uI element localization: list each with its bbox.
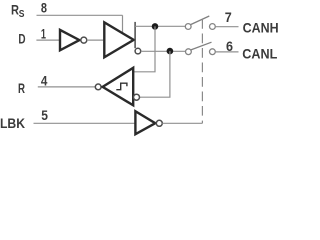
svg-text:8: 8 <box>41 0 47 15</box>
svg-text:4: 4 <box>41 72 48 88</box>
svg-text:D: D <box>18 31 25 47</box>
svg-text:R: R <box>18 80 25 96</box>
svg-text:CANL: CANL <box>242 45 277 61</box>
svg-text:6: 6 <box>226 38 233 54</box>
switch S2 (CANL) <box>186 42 216 54</box>
wire to pin 7 <box>215 26 238 28</box>
wire RS vertical into driver <box>122 15 124 33</box>
svg-text:S: S <box>19 9 25 20</box>
wire D pin 1 to inverter <box>36 39 59 41</box>
wire CANL rail <box>141 50 186 52</box>
svg-text:1: 1 <box>41 25 46 41</box>
wire dashed switch control <box>201 19 203 116</box>
wire inverter to driver <box>87 39 104 41</box>
wire RS pin 8 horizontal <box>37 14 123 16</box>
driver inverting output bubble <box>135 48 141 54</box>
switch S1 (CANH) <box>185 16 215 29</box>
wire R pin 4 to receiver output bubble <box>38 86 96 88</box>
wire dashed corner stub <box>201 121 203 124</box>
junction dot CANH <box>152 23 159 30</box>
node RS label <box>11 1 25 20</box>
wire LBK inverter output <box>162 122 202 124</box>
driver output bar <box>134 22 136 48</box>
inverter U4 (LBK) <box>135 111 162 134</box>
svg-text:5: 5 <box>41 107 48 123</box>
receiver U3 (comparator with hysteresis) <box>95 68 139 106</box>
driver U2 (CAN driver) <box>104 22 133 57</box>
wire to pin 6 <box>215 51 238 53</box>
inverter U1 (D input) <box>60 30 87 50</box>
svg-text:LBK: LBK <box>0 115 25 131</box>
junction dot CANL <box>167 48 174 55</box>
svg-text:CANH: CANH <box>243 19 279 35</box>
wire CANH rail <box>135 25 185 27</box>
wire LBK pin 5 to inverter <box>34 122 135 124</box>
wire CANH tap down to receiver input <box>133 26 155 71</box>
svg-text:R: R <box>11 1 19 17</box>
wire CANL tap down to receiver input <box>139 51 170 97</box>
svg-text:7: 7 <box>225 9 232 25</box>
